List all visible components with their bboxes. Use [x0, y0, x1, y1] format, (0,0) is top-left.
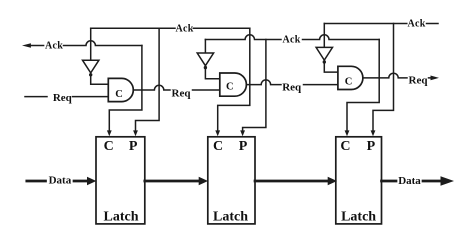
wire latch L1 P-input arrow — [133, 130, 138, 136]
svg-text:C: C — [340, 139, 350, 154]
svg-text:C: C — [104, 139, 114, 154]
svg-text:Ack: Ack — [175, 24, 193, 35]
wire inverter I3 feed (from Ack4 line down) — [323, 24, 325, 48]
svg-text:Data: Data — [398, 175, 421, 187]
wire Req4 (C3 output, hop over P3 feed) — [363, 73, 432, 78]
wire Data L2-L3 arrow — [328, 177, 337, 186]
wire inverter I2 feed (from Ack3 line down) — [204, 40, 206, 53]
wire inverter I1 feed (from Ack2 line down) — [90, 28, 92, 60]
wire inverter I1 output to C1 top input — [91, 77, 109, 85]
svg-text:P: P — [129, 139, 138, 154]
wire Req2 (C1 output to C2, hop over P1 feed) — [133, 85, 220, 90]
wire Data output arrow — [441, 176, 455, 185]
latch L3 — [336, 137, 382, 224]
svg-text:Latch: Latch — [341, 210, 376, 225]
wire node A2: Ack2 corner down through C2 output to latch L2 C input — [218, 28, 250, 131]
wire Data latch1 to latch2 (thick) — [145, 180, 200, 183]
latch L2 — [208, 137, 255, 224]
svg-text:C: C — [226, 81, 234, 92]
wire Req4 output arrow — [431, 76, 440, 81]
wire latch L3 C-input arrow — [345, 130, 350, 136]
wire latch L1 C-input arrow — [107, 130, 112, 136]
wire Data input arrow — [87, 177, 96, 186]
svg-text:Ack: Ack — [282, 35, 300, 46]
svg-text:Data: Data — [49, 174, 72, 186]
svg-text:Req: Req — [409, 74, 429, 86]
wire node A1: Ack1 corner down through C1 output to latch L1 C input — [109, 46, 142, 132]
svg-text:Req: Req — [282, 81, 302, 93]
wire latch L2 C-input arrow — [215, 130, 220, 136]
wire inverter I3 output to C3 top input — [324, 64, 338, 72]
svg-text:P: P — [367, 139, 376, 154]
wire Req3 (C2 output to C3, hop over P2 feed) — [246, 80, 338, 85]
wire Ack2 (stage-2 acknowledge top line) — [91, 27, 250, 29]
wire Ack1 (stage-1 acknowledge, with hop over inverter feed) — [22, 41, 142, 48]
wire latch L2 P feed (from Ack3 line down to P input) — [243, 40, 266, 132]
C-element U3 — [338, 66, 363, 89]
svg-text:Latch: Latch — [104, 210, 139, 225]
latch L1 — [96, 137, 145, 224]
wire latch L3 P feed (from Ack4 line down to P input) — [373, 24, 394, 132]
C-element U1 — [108, 78, 133, 101]
wire Data output (thick) — [382, 180, 442, 183]
svg-text:Ack: Ack — [45, 41, 63, 52]
svg-text:C: C — [115, 89, 123, 100]
inverter I3 — [316, 47, 332, 63]
wire Ack4 (rightmost acknowledge line) — [324, 23, 438, 25]
wire latch L2 P-input arrow — [240, 130, 245, 136]
svg-text:Req: Req — [53, 92, 73, 104]
inverter I1 — [83, 60, 99, 76]
wire Data input (thick) — [27, 180, 89, 183]
wire Req1 input — [25, 96, 108, 98]
svg-text:P: P — [239, 139, 248, 154]
svg-text:Ack: Ack — [407, 19, 425, 30]
wire latch L1 P feed (from Ack2 line down to P input) — [136, 28, 160, 131]
wire node A3: Ack3 corner down through C3 output to latch L3 C input — [347, 40, 379, 132]
inverter I2 — [197, 53, 213, 69]
C-element U2 — [220, 73, 247, 96]
svg-text:C: C — [213, 139, 223, 154]
wire inverter I2 output to C2 top input — [205, 69, 219, 79]
wire Data L1-L2 arrow — [199, 177, 208, 186]
svg-text:Latch: Latch — [213, 210, 248, 225]
wire latch L3 P-input arrow — [371, 130, 376, 136]
svg-text:C: C — [345, 76, 353, 87]
wire Ack3 (stage-3 acknowledge, hops over A2 vertical and I3 feed) — [205, 35, 379, 40]
svg-text:Req: Req — [172, 88, 192, 100]
wire Data latch2 to latch3 (thick) — [255, 180, 329, 183]
